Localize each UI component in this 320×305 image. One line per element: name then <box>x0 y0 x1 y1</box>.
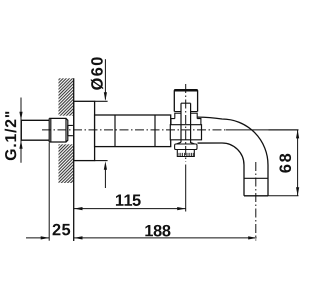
centerline valve vertical <box>185 84 187 162</box>
nipple stub in wall <box>68 125 73 135</box>
flange top edge extension <box>95 100 108 102</box>
dim 68 bottom extension <box>268 195 299 197</box>
dim O60 leader line <box>104 59 106 99</box>
pipe joint line 2 <box>154 115 156 147</box>
pipe body horizontal <box>95 115 171 147</box>
wall face line <box>73 78 75 241</box>
centerline outlet vertical <box>255 162 257 241</box>
wall hatching upper <box>59 78 74 115</box>
dim G1/2 text <box>5 112 17 160</box>
dim 25 extension line <box>48 143 50 241</box>
knob bottom edges <box>174 111 197 113</box>
valve stem slot <box>181 103 191 142</box>
extension line valve to 115 dim <box>185 165 187 212</box>
dim O60 arrow down <box>104 92 107 101</box>
dim 68 text <box>279 154 291 173</box>
dim 188 text <box>145 225 170 237</box>
handle knob <box>174 90 197 112</box>
spout tube bottom edge and elbow inner <box>198 143 245 196</box>
dim 25 outside arrow <box>26 237 49 239</box>
dim 115 line <box>74 208 186 210</box>
dim 68 top extension solid <box>269 129 299 131</box>
flange bottom edge extension <box>95 160 108 162</box>
dim O60 lower arrow <box>104 161 107 170</box>
pipe joint line 1 <box>114 115 116 147</box>
outlet bottom edge <box>244 195 268 197</box>
valve body band <box>170 125 201 140</box>
dim G1/2 arrows <box>19 112 22 121</box>
dim 188 arrows <box>74 236 83 239</box>
bonnet base <box>171 119 201 125</box>
nipple thread section <box>49 118 68 142</box>
nipple G1/2 small section <box>21 120 49 140</box>
bonnet collar <box>175 113 197 118</box>
wall hatching lower <box>59 144 74 183</box>
flange escutcheon <box>74 101 95 160</box>
dim 25 text <box>53 224 71 236</box>
knob top thick edge <box>174 89 197 91</box>
dim G1/2 line <box>20 98 22 163</box>
dim 68 line <box>297 130 299 196</box>
dim 115 arrows <box>74 207 83 210</box>
outlet joint line <box>244 177 268 179</box>
dim 68 arrows <box>296 130 299 139</box>
lower block with serrations <box>177 150 194 157</box>
dim 188 line <box>74 237 257 239</box>
lower collar <box>175 142 197 149</box>
dim 115 text <box>116 195 141 206</box>
dim O60 text <box>91 57 103 89</box>
centerline horizontal axis <box>42 129 226 131</box>
spout tube top edge and elbow outer <box>198 117 268 196</box>
